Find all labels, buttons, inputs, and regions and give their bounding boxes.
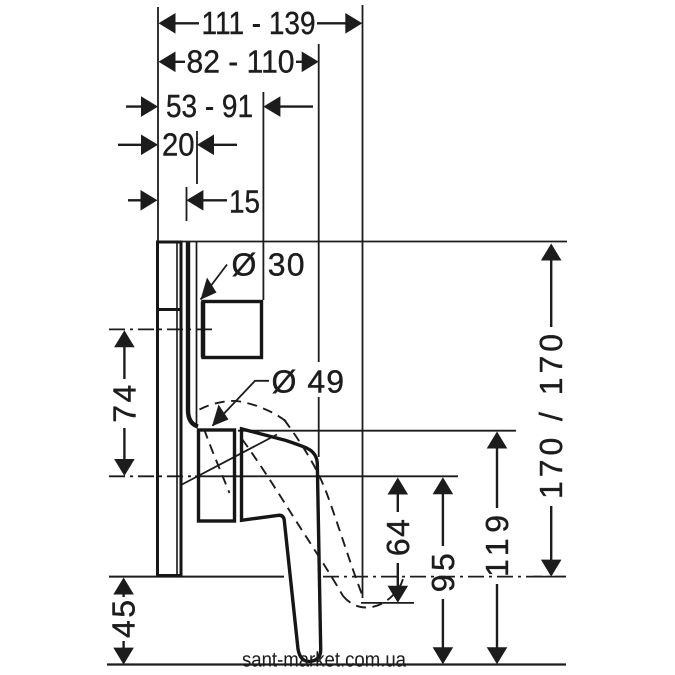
svg-text:15: 15 — [229, 184, 260, 220]
svg-text:119: 119 — [479, 515, 515, 577]
svg-text:Ø 30: Ø 30 — [232, 247, 305, 283]
svg-text:64: 64 — [380, 519, 416, 556]
svg-text:20: 20 — [162, 127, 195, 163]
svg-text:53 - 91: 53 - 91 — [166, 88, 253, 124]
svg-text:Ø 49: Ø 49 — [272, 363, 345, 399]
svg-text:sant-market.com.ua: sant-market.com.ua — [242, 649, 406, 672]
svg-text:111 - 139: 111 - 139 — [202, 5, 316, 41]
svg-text:170 / 170: 170 / 170 — [533, 334, 569, 499]
svg-text:82 - 110: 82 - 110 — [187, 43, 295, 79]
